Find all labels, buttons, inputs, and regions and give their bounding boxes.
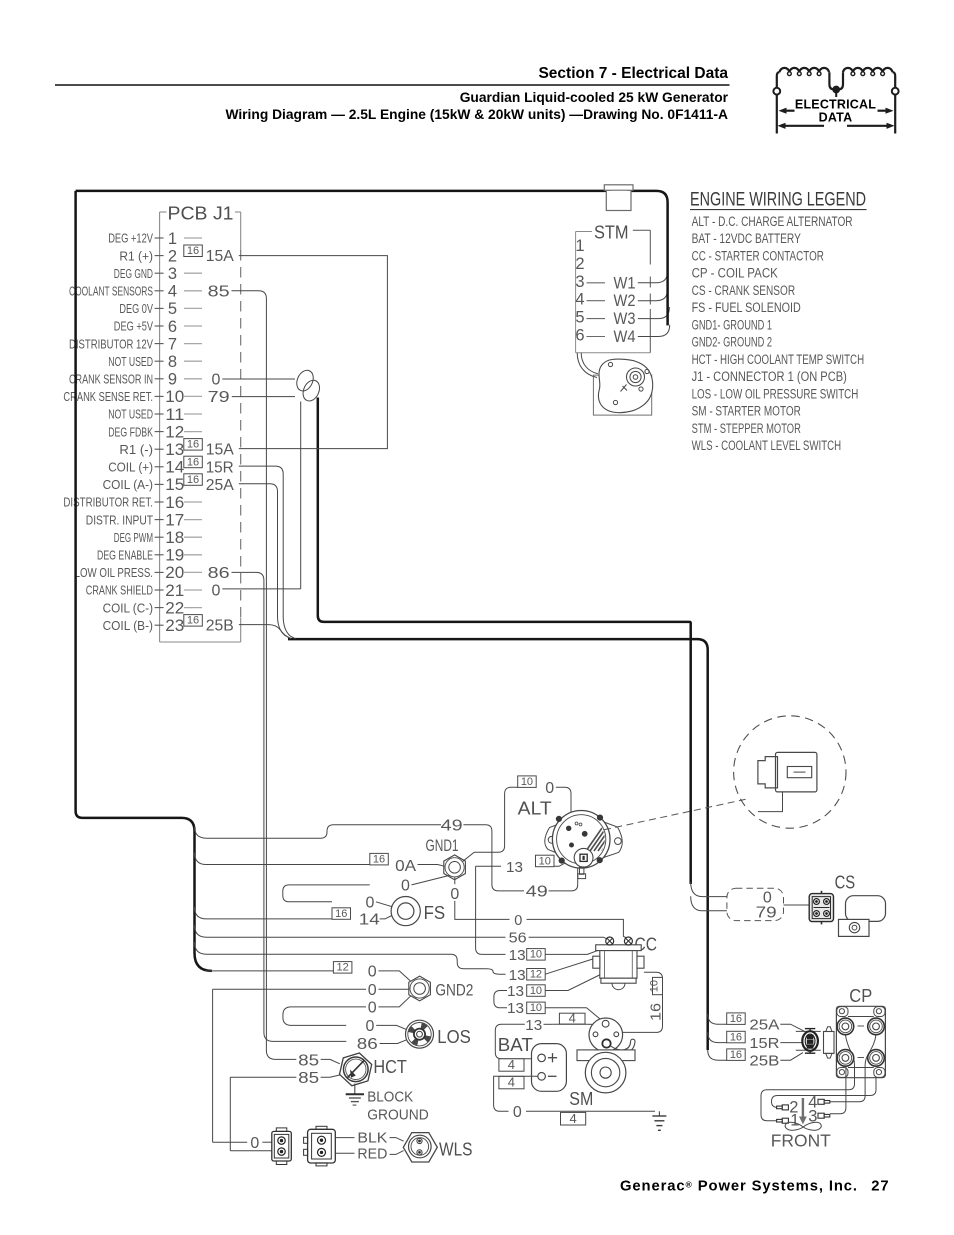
svg-text:ALT: ALT [518, 798, 552, 819]
svg-text:Wiring Diagram — 2.5L Engine (: Wiring Diagram — 2.5L Engine (15kW & 20k… [225, 107, 728, 122]
svg-text:6: 6 [168, 318, 177, 336]
svg-text:1: 1 [575, 237, 584, 255]
svg-text:LOS: LOS [437, 1026, 471, 1047]
svg-text:16: 16 [649, 1003, 665, 1021]
svg-text:2: 2 [168, 247, 177, 265]
svg-text:25A: 25A [749, 1016, 779, 1033]
svg-text:W4: W4 [614, 328, 636, 346]
svg-text:0: 0 [212, 371, 221, 388]
svg-text:15R: 15R [206, 459, 234, 476]
svg-text:85: 85 [298, 1070, 319, 1087]
svg-text:BLK: BLK [357, 1131, 387, 1147]
svg-text:0: 0 [212, 583, 221, 600]
svg-text:12: 12 [530, 969, 542, 981]
svg-text:LOW OIL PRESS.: LOW OIL PRESS. [75, 565, 153, 580]
svg-text:13: 13 [165, 441, 184, 459]
svg-text:DISTR. INPUT: DISTR. INPUT [86, 512, 153, 527]
svg-text:STM: STM [594, 222, 629, 243]
svg-text:STM - STEPPER MOTOR: STM - STEPPER MOTOR [692, 421, 801, 436]
svg-text:CRANK SHIELD: CRANK SHIELD [86, 583, 153, 598]
svg-text:GND1: GND1 [426, 837, 459, 855]
svg-text:25B: 25B [206, 618, 234, 635]
svg-text:16: 16 [373, 854, 385, 866]
svg-text:DEG +12V: DEG +12V [108, 231, 153, 246]
svg-text:0: 0 [250, 1135, 259, 1152]
svg-text:10: 10 [165, 388, 184, 406]
svg-text:COIL (C-): COIL (C-) [103, 600, 153, 615]
svg-text:16: 16 [730, 1031, 742, 1043]
svg-text:DEG PWM: DEG PWM [114, 530, 153, 545]
svg-text:0: 0 [368, 999, 377, 1016]
svg-text:3: 3 [168, 265, 177, 283]
svg-text:R1 (+): R1 (+) [119, 248, 153, 263]
svg-text:15A: 15A [206, 442, 234, 459]
svg-text:COIL (B-): COIL (B-) [103, 618, 153, 633]
svg-text:0A: 0A [395, 858, 416, 875]
svg-text:0: 0 [366, 1018, 375, 1035]
svg-text:79: 79 [208, 389, 230, 406]
svg-text:49: 49 [441, 817, 463, 834]
svg-text:13: 13 [525, 1018, 542, 1034]
svg-text:HCT: HCT [373, 1056, 407, 1077]
svg-text:18: 18 [165, 529, 184, 547]
svg-text:15A: 15A [206, 248, 234, 265]
svg-text:GND1- GROUND 1: GND1- GROUND 1 [692, 317, 773, 332]
svg-text:17: 17 [165, 511, 184, 529]
svg-text:W3: W3 [614, 310, 636, 328]
svg-text:25A: 25A [206, 477, 234, 494]
svg-text:4: 4 [569, 1010, 576, 1025]
svg-text:DISTRIBUTOR 12V: DISTRIBUTOR 12V [69, 336, 153, 351]
svg-text:12: 12 [165, 423, 184, 441]
svg-text:W1: W1 [614, 274, 636, 292]
svg-text:0: 0 [514, 913, 522, 929]
svg-text:PCB J1: PCB J1 [168, 203, 234, 224]
svg-text:ENGINE WIRING LEGEND: ENGINE WIRING LEGEND [690, 190, 866, 211]
svg-text:4: 4 [508, 1075, 515, 1090]
svg-text:HCT - HIGH COOLANT TEMP SWITCH: HCT - HIGH COOLANT TEMP SWITCH [692, 352, 865, 367]
svg-text:4: 4 [168, 283, 177, 301]
svg-text:10: 10 [539, 855, 551, 867]
svg-text:DEG +5V: DEG +5V [114, 319, 153, 334]
svg-text:85: 85 [208, 283, 230, 300]
svg-text:22: 22 [165, 599, 184, 617]
svg-text:56: 56 [509, 931, 527, 947]
svg-text:0: 0 [545, 780, 554, 797]
svg-text:DEG 0V: DEG 0V [119, 301, 153, 316]
svg-text:20: 20 [165, 564, 184, 582]
svg-text:13: 13 [506, 860, 523, 876]
svg-text:85: 85 [298, 1052, 319, 1069]
svg-text:4: 4 [575, 291, 584, 309]
svg-text:16: 16 [165, 494, 184, 512]
svg-text:DEG ENABLE: DEG ENABLE [97, 548, 153, 563]
svg-text:9: 9 [168, 371, 177, 389]
svg-text:10: 10 [521, 776, 533, 788]
svg-text:CRANK SENSOR IN: CRANK SENSOR IN [69, 372, 153, 387]
svg-text:13: 13 [507, 984, 524, 1000]
svg-text:R1 (-): R1 (-) [119, 442, 153, 457]
svg-text:CP: CP [849, 985, 872, 1006]
svg-text:16: 16 [335, 908, 347, 920]
svg-text:GND2: GND2 [435, 981, 473, 999]
svg-text:10: 10 [530, 985, 542, 997]
svg-text:5: 5 [168, 300, 177, 318]
svg-text:0: 0 [513, 1104, 522, 1121]
svg-text:LOS - LOW OIL PRESSURE SWITCH: LOS - LOW OIL PRESSURE SWITCH [692, 386, 859, 401]
svg-text:23: 23 [165, 617, 184, 635]
svg-text:19: 19 [165, 547, 184, 565]
svg-text:Guardian Liquid-cooled 25 kW G: Guardian Liquid-cooled 25 kW Generator [460, 90, 729, 105]
svg-text:49: 49 [526, 883, 548, 900]
svg-text:1: 1 [790, 1112, 799, 1130]
svg-text:FS: FS [424, 902, 446, 923]
svg-text:ALT - D.C. CHARGE ALTERNATOR: ALT - D.C. CHARGE ALTERNATOR [692, 214, 853, 229]
svg-text:0: 0 [368, 963, 377, 980]
svg-text:WLS: WLS [439, 1138, 473, 1159]
svg-text:16: 16 [187, 439, 199, 451]
svg-text:13: 13 [509, 968, 526, 984]
svg-text:21: 21 [165, 582, 184, 600]
svg-text:W2: W2 [614, 292, 636, 310]
svg-text:8: 8 [168, 353, 177, 371]
svg-text:0: 0 [401, 877, 410, 894]
svg-text:16: 16 [187, 615, 199, 627]
svg-text:NOT USED: NOT USED [108, 407, 153, 422]
svg-text:DEG FDBK: DEG FDBK [108, 424, 153, 439]
svg-text:11: 11 [165, 406, 184, 424]
svg-text:25B: 25B [749, 1052, 779, 1069]
svg-text:79: 79 [756, 905, 777, 922]
svg-text:DEG GND: DEG GND [114, 266, 153, 281]
svg-text:SM: SM [569, 1088, 593, 1109]
svg-text:6: 6 [575, 327, 584, 345]
svg-text:BLOCK: BLOCK [367, 1088, 413, 1105]
svg-text:16: 16 [730, 1049, 742, 1061]
svg-text:CP - COIL PACK: CP - COIL PACK [692, 266, 778, 281]
svg-text:CC - STARTER CONTACTOR: CC - STARTER CONTACTOR [692, 248, 824, 263]
svg-text:1: 1 [168, 230, 177, 248]
svg-text:ELECTRICAL: ELECTRICAL [795, 98, 876, 112]
svg-text:COIL (+): COIL (+) [108, 460, 153, 475]
svg-text:12: 12 [337, 962, 349, 974]
svg-text:Section 7 - Electrical Data: Section 7 - Electrical Data [538, 65, 728, 82]
svg-text:14: 14 [359, 911, 380, 928]
svg-text:13: 13 [509, 948, 526, 964]
svg-text:10: 10 [530, 949, 542, 961]
svg-text:3: 3 [575, 273, 584, 291]
svg-text:NOT USED: NOT USED [108, 354, 153, 369]
svg-text:GROUND: GROUND [367, 1106, 429, 1123]
svg-text:4: 4 [508, 1057, 515, 1072]
svg-text:16: 16 [730, 1013, 742, 1025]
svg-text:WLS - COOLANT LEVEL SWITCH: WLS - COOLANT LEVEL SWITCH [692, 438, 842, 453]
svg-text:16: 16 [187, 245, 199, 257]
svg-text:5: 5 [575, 309, 584, 327]
svg-text:DATA: DATA [819, 111, 853, 125]
svg-text:0: 0 [365, 894, 374, 911]
svg-text:CC: CC [635, 934, 658, 955]
svg-text:CS: CS [835, 871, 856, 892]
svg-text:15R: 15R [749, 1035, 779, 1052]
svg-text:GND2- GROUND 2: GND2- GROUND 2 [692, 335, 773, 350]
svg-text:SM - STARTER MOTOR: SM - STARTER MOTOR [692, 404, 801, 419]
svg-text:2: 2 [575, 255, 584, 273]
svg-text:Generac® Power Systems, Inc.: Generac® Power Systems, Inc. 27 [620, 1179, 889, 1195]
svg-text:10: 10 [530, 1002, 542, 1014]
svg-text:FRONT: FRONT [771, 1131, 831, 1151]
svg-text:0: 0 [368, 982, 377, 999]
svg-text:RED: RED [357, 1147, 387, 1163]
svg-text:BAT: BAT [498, 1034, 533, 1055]
svg-text:0: 0 [450, 886, 459, 903]
svg-text:FS - FUEL SOLENOID: FS - FUEL SOLENOID [692, 300, 801, 315]
svg-text:16: 16 [187, 456, 199, 468]
svg-text:86: 86 [208, 565, 230, 582]
svg-text:7: 7 [168, 335, 177, 353]
svg-text:16: 16 [187, 474, 199, 486]
svg-text:COIL (A-): COIL (A-) [103, 477, 153, 492]
svg-text:86: 86 [357, 1036, 378, 1053]
svg-text:15: 15 [165, 476, 184, 494]
svg-text:14: 14 [165, 459, 184, 477]
svg-text:4: 4 [569, 1111, 576, 1126]
svg-text:13: 13 [507, 1001, 524, 1017]
svg-text:CS - CRANK SENSOR: CS - CRANK SENSOR [692, 283, 796, 298]
svg-text:COOLANT SENSORS: COOLANT SENSORS [69, 284, 153, 299]
svg-text:10: 10 [649, 980, 661, 992]
svg-text:J1 - CONNECTOR 1 (ON PCB): J1 - CONNECTOR 1 (ON PCB) [692, 369, 847, 384]
svg-text:BAT - 12VDC BATTERY: BAT - 12VDC BATTERY [692, 231, 801, 246]
